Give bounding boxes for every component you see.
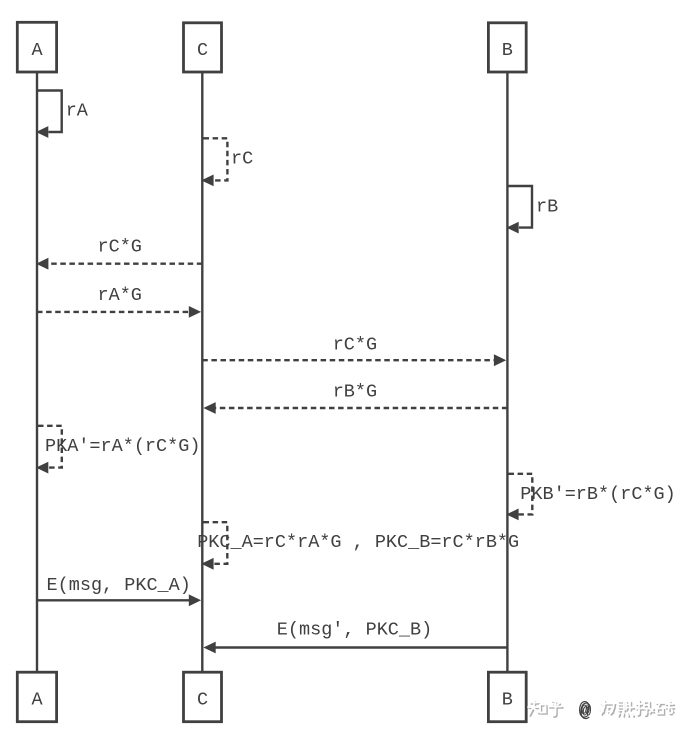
svg-text:PKB'=rB*(rC*G): PKB'=rB*(rC*G) — [520, 484, 675, 505]
self-message PKA'=rA*(rC*G) on A (dashed) — [36, 426, 200, 474]
lifeline C — [201, 72, 203, 672]
svg-text:rC: rC — [231, 148, 253, 169]
svg-text:E(msg', PKC_B): E(msg', PKC_B) — [277, 620, 432, 641]
svg-text:@: @ — [579, 699, 591, 721]
message E(msg, PKC_A) from A to C (solid) — [37, 575, 201, 606]
svg-text:rB*G: rB*G — [333, 382, 377, 403]
svg-text:rA*G: rA*G — [97, 285, 141, 306]
svg-text:rC*G: rC*G — [333, 335, 377, 356]
self-message rC on C (dashed) — [201, 138, 253, 186]
svg-text:A: A — [31, 690, 43, 711]
self-message PKB'=rB*(rC*G) on B (dashed) — [506, 474, 675, 521]
actor box B bottom — [488, 672, 526, 722]
svg-text:C: C — [197, 40, 208, 61]
self-message rB on B — [506, 186, 558, 234]
svg-text:A: A — [31, 40, 43, 61]
svg-text:rC*G: rC*G — [97, 237, 141, 258]
message E(msg', PKC_B) from B to C (solid) — [203, 620, 507, 654]
svg-text:PKC_A=rC*rA*G , PKC_B=rC*rB*G: PKC_A=rC*rA*G , PKC_B=rC*rB*G — [197, 532, 519, 553]
svg-text:B: B — [502, 40, 513, 61]
self-message PKC_A / PKC_B on C (dashed) — [197, 522, 519, 570]
message rC*G from C to B (dashed) — [202, 335, 506, 367]
message rC*G from C to A (dashed) — [36, 237, 202, 270]
actor box A top — [17, 22, 56, 72]
actor box B top — [488, 23, 526, 72]
watermark 知乎 @狗熊搬砖 (drawn glyphs, embossed) — [528, 699, 674, 722]
actor box A bottom — [17, 672, 56, 722]
svg-text:C: C — [197, 690, 208, 711]
svg-text:PKA'=rA*(rC*G): PKA'=rA*(rC*G) — [45, 436, 200, 457]
svg-text:B: B — [502, 690, 513, 711]
actor box C bottom — [184, 672, 222, 722]
svg-text:rB: rB — [536, 196, 558, 217]
lifeline A — [36, 72, 38, 672]
svg-text:E(msg, PKC_A): E(msg, PKC_A) — [47, 575, 191, 596]
actor box C top — [184, 23, 222, 72]
message rB*G from B to C (dashed) — [203, 382, 507, 414]
lifeline B — [506, 72, 508, 672]
svg-text:rA: rA — [66, 101, 89, 122]
message rA*G from A to C (dashed) — [37, 285, 201, 318]
self-message rA on A — [36, 91, 89, 138]
